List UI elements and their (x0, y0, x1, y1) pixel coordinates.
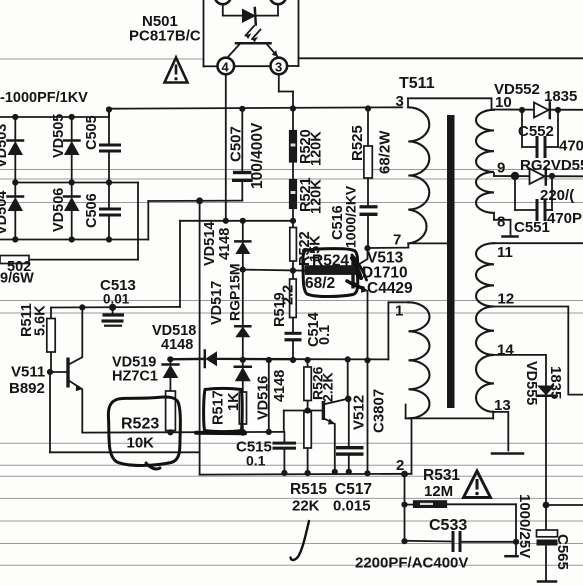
svg-text:13: 13 (494, 397, 511, 414)
svg-text:C3807: C3807 (371, 389, 388, 433)
svg-text:C4429: C4429 (367, 280, 413, 297)
svg-text:R525: R525 (349, 125, 366, 161)
svg-text:4: 4 (222, 60, 230, 75)
svg-text:VD514: VD514 (202, 222, 218, 266)
svg-text:1: 1 (395, 303, 403, 320)
svg-text:120K: 120K (309, 131, 325, 166)
svg-text:R531: R531 (423, 467, 460, 484)
svg-text:68/2: 68/2 (305, 275, 335, 292)
svg-text:1000/25V: 1000/25V (516, 494, 533, 558)
svg-text:470P: 470P (547, 210, 582, 227)
svg-text:D1710: D1710 (362, 265, 408, 282)
svg-text:C506: C506 (84, 193, 100, 228)
svg-text:470: 470 (559, 138, 583, 155)
svg-text:VD504: VD504 (0, 191, 10, 235)
svg-text:15K: 15K (308, 235, 324, 262)
svg-text:R523: R523 (121, 416, 159, 433)
svg-text:C565: C565 (554, 534, 571, 570)
svg-text:C507: C507 (228, 126, 245, 162)
svg-text:C533: C533 (429, 517, 467, 534)
svg-text:7: 7 (393, 232, 401, 249)
svg-text:VD555: VD555 (523, 361, 539, 405)
svg-text:R515: R515 (290, 481, 327, 498)
svg-text:V511: V511 (11, 364, 45, 381)
svg-text:1835: 1835 (544, 88, 577, 105)
svg-text:2.2: 2.2 (281, 285, 297, 305)
svg-text:VD503: VD503 (0, 124, 10, 168)
svg-text:1835: 1835 (547, 366, 564, 399)
svg-text:1K: 1K (226, 392, 242, 411)
svg-text:V512: V512 (351, 395, 368, 430)
svg-text:C505: C505 (84, 115, 100, 150)
svg-text:220/(: 220/( (540, 187, 574, 204)
svg-text:HZ7C1: HZ7C1 (112, 369, 158, 385)
svg-text:8: 8 (497, 214, 505, 231)
svg-text:3: 3 (275, 60, 282, 75)
svg-text:-1000PF/1KV: -1000PF/1KV (0, 90, 88, 106)
svg-text:0.1: 0.1 (246, 453, 266, 469)
svg-text:C552: C552 (518, 123, 554, 140)
svg-text:10: 10 (495, 94, 512, 111)
svg-text:14: 14 (497, 342, 514, 359)
svg-text:120K: 120K (309, 179, 325, 214)
svg-text:2200PF/AC400V: 2200PF/AC400V (355, 555, 468, 572)
svg-text:R517: R517 (211, 390, 227, 425)
svg-text:100/400V: 100/400V (249, 122, 266, 189)
svg-text:VD506: VD506 (51, 188, 67, 232)
svg-text:4148: 4148 (272, 370, 288, 402)
svg-text:C551: C551 (514, 219, 550, 236)
svg-text:4148: 4148 (161, 337, 193, 353)
svg-text:4148: 4148 (217, 228, 233, 260)
svg-text:RGP15M: RGP15M (227, 263, 243, 321)
svg-text:2: 2 (396, 457, 404, 474)
svg-text:10K: 10K (127, 435, 155, 452)
svg-text:PC817B/C: PC817B/C (129, 28, 201, 45)
svg-text:12: 12 (498, 291, 515, 308)
svg-text:2.2K: 2.2K (320, 372, 336, 402)
svg-text:VD517: VD517 (209, 281, 225, 325)
svg-text:B892: B892 (9, 380, 45, 397)
svg-text:9: 9 (497, 160, 505, 177)
svg-text:VD516: VD516 (256, 376, 272, 420)
svg-text:C517: C517 (335, 481, 372, 498)
svg-text:68/2W: 68/2W (377, 130, 394, 174)
svg-text:5.6K: 5.6K (33, 305, 49, 336)
svg-text:9/6W: 9/6W (0, 271, 34, 287)
svg-text:22K: 22K (292, 498, 320, 515)
svg-text:VD505: VD505 (51, 114, 67, 158)
svg-text:RG2VD55: RG2VD55 (520, 157, 583, 174)
svg-text:0.01: 0.01 (103, 292, 130, 307)
svg-text:0.1: 0.1 (317, 325, 333, 345)
svg-text:11: 11 (497, 244, 513, 261)
svg-text:3: 3 (396, 93, 404, 110)
svg-text:T511: T511 (399, 75, 435, 92)
svg-text:12M: 12M (424, 483, 453, 500)
svg-text:0.015: 0.015 (333, 498, 371, 515)
svg-text:1000/2KV: 1000/2KV (343, 185, 359, 248)
